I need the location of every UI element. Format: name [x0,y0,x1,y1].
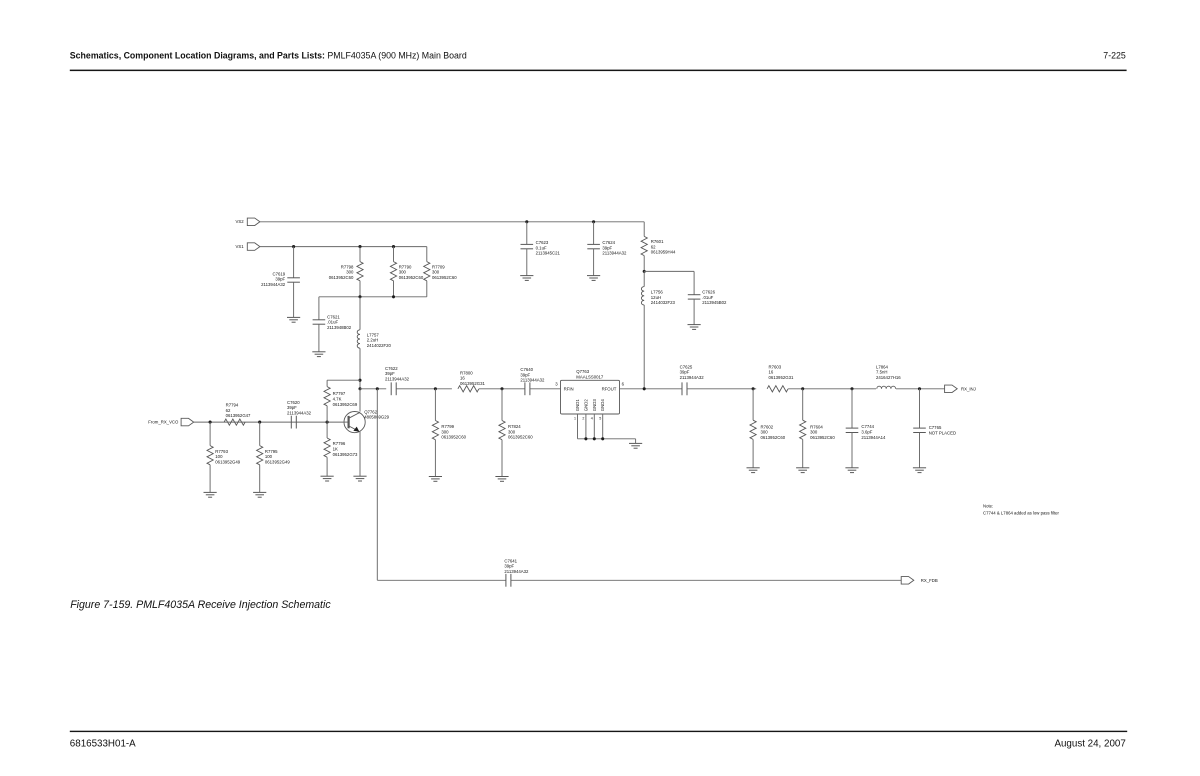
capacitor C7622 [390,382,392,395]
node input-R7795 [258,421,261,424]
IC Q7763 MAALSS0017 buffer [561,380,620,414]
ground C7765 [913,467,926,469]
wire GND2 pin [585,414,587,439]
svg-text:Figure 7-159. PMLF4035A Receiv: Figure 7-159. PMLF4035A Receive Injectio… [70,599,331,611]
svg-text:RX_INJ: RX_INJ [961,386,976,391]
resistor R7604 [802,389,804,420]
wire C7641 to RX_FDB [511,579,901,581]
wire node to C7626 [644,270,694,272]
node GND2 bus [584,437,587,440]
resistor R7799 [434,389,436,421]
wire rail R7800-C7640 [479,388,525,390]
node VS1-R7798 [358,245,361,248]
wire R7797 top link [327,379,360,381]
capacitor C7744 [851,389,853,428]
capacitor C7625 [681,382,683,395]
wire rail C7622-R7800 [396,388,452,390]
ground R7795 [253,491,266,493]
capacitor C7641 [505,574,507,587]
port RX_FDB [901,577,914,585]
node VS1-R7790 [392,245,395,248]
wire RFOUT to C7625 [620,388,683,390]
wire rail L7864-RX_INJ [896,388,945,390]
wire rail C7640-RFIN [530,388,561,390]
svg-text:1: 1 [574,416,576,420]
ground C7619 [287,316,300,318]
resistor R7790 [393,247,395,262]
node VS2-C7624 [592,220,595,223]
capacitor C7621 [318,297,320,320]
inductor L7756 [643,271,645,286]
ground C7623 [520,275,533,277]
resistor R7800 [458,386,479,392]
ground R7796 [321,475,334,477]
capacitor C7620 [290,416,292,429]
resistor R7798 [359,247,361,262]
node base-R7797 [326,421,329,424]
capacitor C7765 [919,389,921,428]
ground emitter [353,475,366,477]
svg-text:Schematics, Component Location: Schematics, Component Location Diagrams,… [70,50,467,60]
node input-R7793 [209,421,212,424]
resistor R7796 [326,422,328,438]
node R7799 [434,387,437,390]
resistor R7824 [501,389,503,421]
node collector [358,387,361,390]
node GND3 bus [593,437,596,440]
resistor R7797 [326,380,328,386]
node VS1-C7619 [292,245,295,248]
ground R7799 [429,476,442,478]
svg-text:GND3: GND3 [592,399,597,412]
capacitor C7619 [293,247,295,278]
svg-text:RX_FDB: RX_FDB [921,578,938,583]
ground C7744 [845,467,858,469]
resistor R7602 [752,389,754,420]
capacitor C7623 [526,222,528,245]
svg-text:VS2: VS2 [235,219,244,224]
resistor R7794 [224,419,245,425]
svg-text:Note:: Note: [983,504,993,509]
capacitor C7626 [688,294,701,296]
wire GND3 pin [593,414,595,439]
node VS2-C7623 [525,220,528,223]
svg-text:2: 2 [582,416,584,420]
node R7602 [752,387,755,390]
port RX_INJ [945,385,958,393]
resistor R7601 [643,222,645,237]
wire main rail left [360,388,386,390]
ground C7624 [587,275,600,277]
node C7744 [850,387,853,390]
wire VS1 rail [260,246,427,248]
ground C7626 [688,324,701,326]
node R7824 [500,387,503,390]
capacitor C7640 [524,382,526,395]
resistor R7709 [426,246,428,248]
wire L7757 to collector node [359,348,361,389]
svg-text:From_RX_VCO: From_RX_VCO [148,420,179,425]
svg-text:GND1: GND1 [575,399,580,412]
node R7797 top [358,379,361,382]
svg-text:VS1: VS1 [235,244,244,249]
ground R7602 [747,467,760,469]
ground C7621 [312,351,325,353]
wire VS2 rail [260,221,644,223]
wire GND bus [578,438,636,440]
wire GND4 pin [602,414,604,439]
wire input row [194,421,344,423]
resistor R7603 [767,386,788,392]
wire collector [359,389,361,412]
svg-text:7-225: 7-225 [1103,50,1126,60]
ground R7824 [495,476,508,478]
svg-text:GND4: GND4 [600,399,605,412]
ground R7604 [796,467,809,469]
resistor R7795 [259,422,261,446]
wire resistor bottom rail [319,296,427,298]
ground R7793 [204,491,217,493]
wire feedback vertical [376,389,378,581]
node R7601-L7756 [643,270,646,273]
svg-text:RFOUT: RFOUT [602,386,617,391]
ground IC [629,442,642,444]
resistor R7793 [209,422,211,446]
svg-text:RFIN: RFIN [564,386,574,391]
header rule [70,70,1127,72]
svg-text:6816533H01-A: 6816533H01-A [70,738,136,749]
svg-text:C7744 & L7864 added as low pas: C7744 & L7864 added as low pass filter [983,511,1060,516]
node feedback tap [376,387,379,390]
wire rail R7603-L7864 [788,388,876,390]
wire emitter [359,432,361,476]
inductor L7757 [359,297,361,330]
wire feedback horizontal [377,579,506,581]
node rail-R7798 [358,295,361,298]
inductor L7864 [877,386,896,389]
svg-text:GND2: GND2 [583,399,588,412]
svg-text:4: 4 [591,416,593,420]
wire GND1 pin [577,414,579,439]
svg-text:5: 5 [599,416,601,420]
node C7765 [918,387,921,390]
wire rail C7625-R7603 [687,388,756,390]
wire L7756 to rail [643,305,645,389]
svg-text:August 24, 2007: August 24, 2007 [1054,739,1125,750]
node rail-R7790 [392,295,395,298]
node GND4 bus [601,437,604,440]
transistor Q7762 [344,412,365,433]
capacitor C7624 [593,222,595,245]
node R7604 [801,387,804,390]
node RFOUT-L7756 [643,387,646,390]
footer rule [70,731,1127,732]
